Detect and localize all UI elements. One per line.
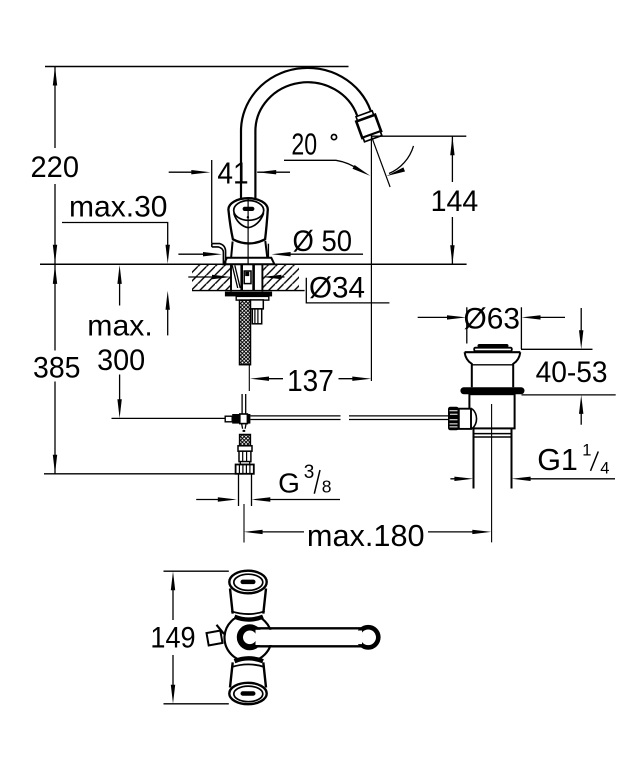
washer under nut: [236, 296, 269, 300]
svg-text:385: 385: [33, 352, 81, 385]
right side tick at body: [267, 244, 269, 258]
svg-text:G: G: [278, 468, 300, 499]
threaded shank walls: [242, 265, 254, 291]
nozzle vertical projection line: [370, 134, 372, 381]
spout hub ring (dark donut): [240, 627, 260, 647]
nozzle 20deg slant line: [371, 136, 390, 187]
svg-text:Ø34: Ø34: [309, 272, 365, 305]
horizontal pop-up rod (with break): [250, 416, 448, 420]
waste upper flange and neck: [465, 351, 521, 353]
spout tube walls: [256, 628, 364, 646]
counter underside line: [192, 290, 305, 292]
lower handle cap ellipse: [229, 683, 266, 704]
counter hatching left block: [192, 264, 231, 290]
knurled rod knob: [448, 407, 459, 431]
dim 137: [264, 378, 358, 380]
centerline through handle/body: [247, 198, 249, 264]
svg-text:Ø 50: Ø 50: [293, 225, 353, 258]
slanted pop-up rod behind shank: [232, 265, 240, 288]
spout tube channel white: [256, 630, 369, 645]
dim D34: [188, 276, 284, 278]
handle inner ellipse: [234, 201, 264, 221]
dim G1 1/4: [450, 478, 615, 480]
nozzle / aerator at spout end (tilted 20deg): [355, 110, 383, 142]
20deg leader with arrow: [284, 160, 358, 169]
hose centerline extension: [248, 365, 250, 391]
lower handle cone sides: [230, 662, 266, 687]
pop-up knob pin: [217, 625, 225, 634]
tee joint of pop-up rod: [225, 416, 232, 422]
counter hatching right block: [262, 264, 299, 290]
svg-text:8: 8: [322, 477, 332, 497]
dim max.300 line: [119, 278, 121, 404]
dim 144 line: [451, 136, 453, 264]
upper handle cap ellipse: [229, 571, 266, 594]
upper handle skirt arc: [231, 611, 264, 614]
handle small dot: [247, 216, 249, 218]
waste tailpipe: [474, 428, 512, 488]
dim 385 line: [54, 265, 56, 474]
40-53 reference lines: [521, 349, 616, 395]
angle arc with arrow: [389, 146, 414, 174]
pop-up vertical rod: [242, 394, 246, 414]
svg-text:3: 3: [304, 462, 315, 483]
svg-text:max.: max.: [87, 309, 153, 342]
braided supply hose: [240, 300, 251, 365]
upper handle base band: [235, 617, 264, 620]
svg-text:1: 1: [582, 442, 591, 460]
spout tube (high arc): [248, 75, 364, 215]
handle (front view, cone with top ellipse): [228, 198, 267, 243]
pop-up knob (top view, left): [207, 631, 223, 646]
hose fitting stack: [238, 446, 252, 451]
handle V skirt: [234, 213, 264, 228]
svg-text:max.30: max.30: [69, 190, 168, 223]
base flange trapezoid: [224, 258, 275, 264]
dim 40-53: [580, 308, 582, 425]
svg-text:137: 137: [287, 364, 334, 398]
upper handle cone sides: [230, 589, 266, 614]
ball joint socket notch: [472, 409, 477, 429]
second hose connector stub: [251, 300, 264, 309]
tailpipe groove lines: [474, 434, 511, 437]
lower handle silhouette: [229, 660, 267, 694]
svg-text:41: 41: [217, 156, 248, 191]
handle slot marker: [243, 207, 255, 211]
svg-text:149: 149: [150, 621, 195, 654]
149 tick lines: [164, 571, 229, 704]
waste centerline: [491, 404, 493, 542]
lower handle base band: [235, 658, 264, 661]
upper handle silhouette: [229, 583, 267, 618]
bottom reference line (385): [44, 473, 235, 475]
dim D63: [418, 316, 565, 318]
svg-text:20: 20: [291, 127, 317, 162]
body neck below handle: [231, 241, 267, 258]
dim D50: [178, 253, 363, 255]
knob collar: [459, 409, 471, 429]
D63 extension lines: [467, 307, 522, 349]
small cartridge rect in shank: [244, 271, 251, 284]
counter top line: [40, 263, 467, 265]
dim 41: [169, 171, 290, 173]
waste rubber seal ring: [460, 387, 524, 394]
dim G3/8: [196, 499, 340, 501]
waste lower body: [469, 394, 514, 428]
41 left extension tick: [211, 160, 213, 243]
lower braided hose segment: [240, 435, 251, 446]
svg-text:300: 300: [97, 344, 145, 377]
waste push cap: [478, 344, 509, 348]
max.30 lower arrow: [167, 304, 169, 335]
svg-text:G1: G1: [537, 443, 578, 477]
svg-text:220: 220: [31, 151, 80, 184]
lower centerline: [243, 504, 245, 543]
supply pipes below nut: [239, 474, 252, 506]
svg-text:4: 4: [600, 459, 609, 477]
pop-up rod lever (left hook): [212, 244, 226, 264]
svg-text:40-53: 40-53: [536, 356, 608, 389]
dim 149 line: [172, 585, 174, 691]
dim 220 line: [54, 67, 56, 264]
spout end cap (dark ring): [358, 627, 378, 647]
waste body joint line: [472, 364, 513, 366]
nozzle horizontal reference line: [371, 135, 466, 137]
lower handle skirt arc: [231, 664, 264, 667]
svg-text:max.180: max.180: [307, 518, 425, 553]
D34 callout box: [306, 278, 389, 303]
dim max.30 underline and leader: [62, 223, 168, 251]
max.300 bottom reference line: [112, 417, 226, 419]
svg-text:144: 144: [431, 185, 479, 218]
G3/8 coupling nut: [236, 465, 254, 474]
dim max.180: [257, 531, 478, 533]
mounting nut (dark bar): [225, 292, 272, 297]
top reference line: [45, 66, 349, 68]
svg-text:Ø63: Ø63: [464, 303, 521, 336]
rod lower stub: [242, 424, 247, 429]
escutcheon body circle: [225, 614, 272, 661]
mounting hole edges: [231, 264, 262, 291]
